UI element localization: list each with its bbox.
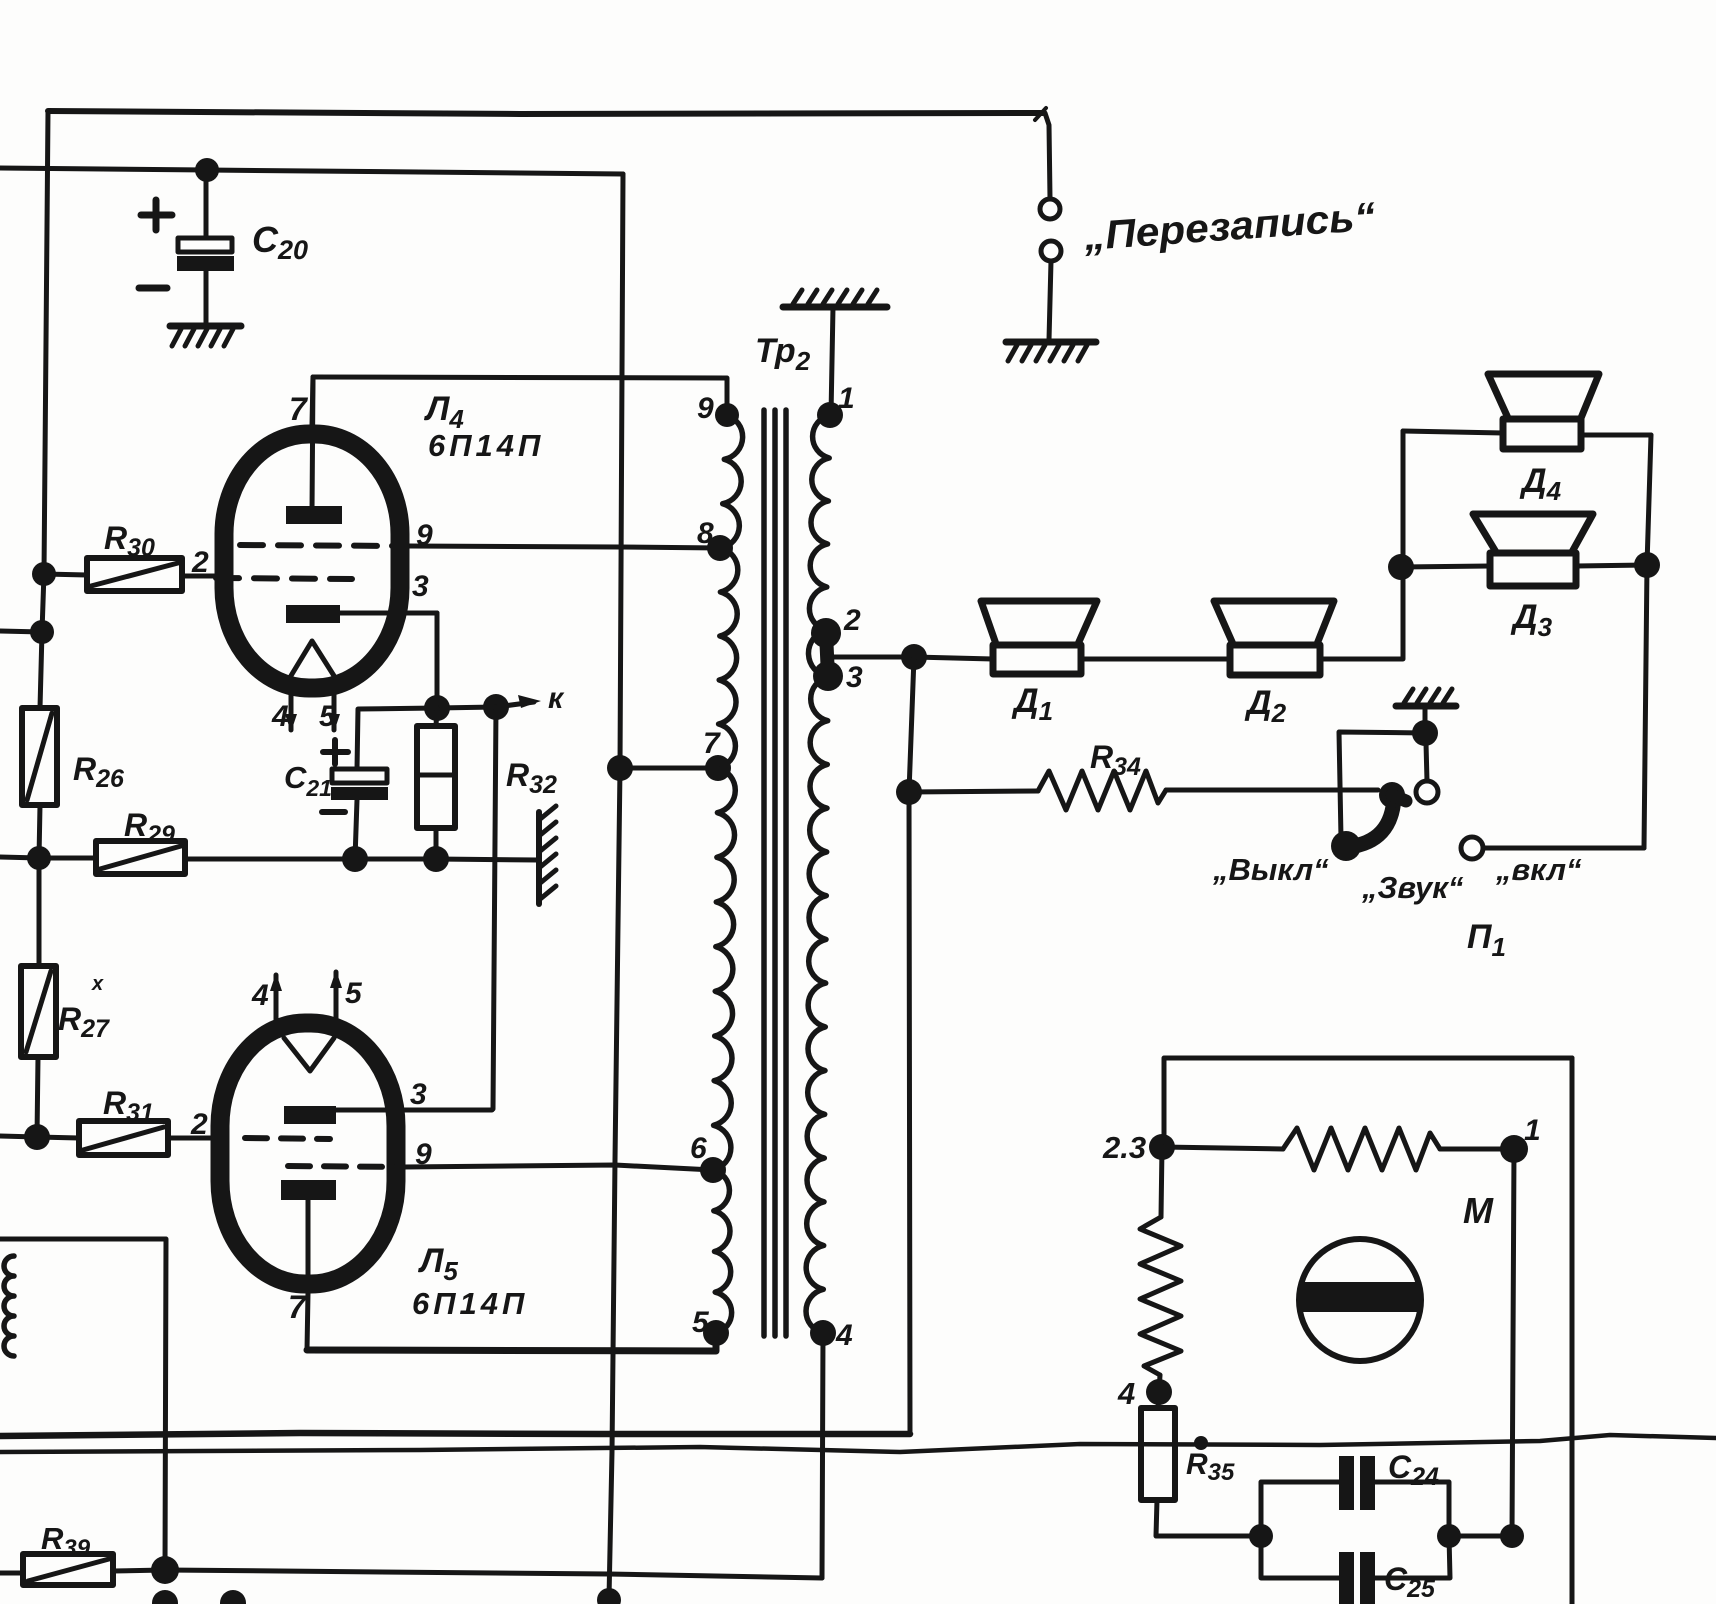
wire left edge y632 bbox=[0, 631, 42, 632]
resistor R31 bbox=[37, 1085, 212, 1155]
resistor (motor left winding) bbox=[1161, 1147, 1162, 1217]
Tr2 secondary winding bbox=[806, 415, 830, 1333]
svg-text:3: 3 bbox=[410, 1078, 427, 1111]
svg-text:4: 4 bbox=[271, 700, 289, 733]
node (37,1137) bbox=[24, 1124, 50, 1150]
node R32 bottom bbox=[423, 846, 449, 872]
wire Л5 pin9 to Tr2 pin6 bbox=[404, 1165, 713, 1170]
node C24/C25 right bbox=[1437, 1524, 1461, 1548]
svg-text:2: 2 bbox=[190, 1108, 208, 1141]
node motor pin 2.3 bbox=[1149, 1134, 1175, 1160]
svg-text:„Звук“: „Звук“ bbox=[1361, 870, 1464, 905]
node K junction bbox=[483, 694, 509, 720]
capacitor C24 bbox=[1261, 1449, 1449, 1536]
ground (above П1) bbox=[1396, 689, 1456, 706]
node Tr2 pin8 bbox=[707, 535, 733, 561]
switch П1 bbox=[1212, 709, 1644, 962]
wire Д1 to Д2 bbox=[1081, 657, 1230, 662]
svg-text:5: 5 bbox=[319, 700, 337, 733]
transformer T Тр2 bbox=[690, 332, 863, 1352]
motor M circuit bbox=[1102, 1058, 1572, 1604]
svg-text:7: 7 bbox=[288, 1289, 308, 1325]
resistor R26 bbox=[22, 708, 125, 858]
svg-text:5: 5 bbox=[692, 1306, 710, 1339]
node cathode junction bbox=[424, 695, 450, 721]
wire Д2 to Д3/Д4 riser bbox=[1320, 431, 1403, 659]
wire Л4 pin7 to Tr2 pin9 bbox=[313, 377, 727, 415]
svg-text:1: 1 bbox=[1524, 1114, 1541, 1147]
Tr2 primary winding bbox=[713, 415, 743, 1333]
speaker Д4 bbox=[1403, 374, 1651, 506]
wire Tr2 pin2/3 output bbox=[830, 655, 914, 660]
node bus-pin7 junction bbox=[607, 755, 633, 781]
wire motor box top bbox=[1164, 1058, 1572, 1147]
node Tr2 pin2 bbox=[811, 618, 841, 648]
svg-text:6: 6 bbox=[690, 1132, 707, 1165]
svg-text:4: 4 bbox=[1117, 1376, 1135, 1411]
wire Tr2 pin7 to bus bbox=[620, 766, 718, 771]
svg-text:4: 4 bbox=[835, 1319, 853, 1352]
node Tr2 pin9 bbox=[715, 403, 739, 427]
node Д3 left junction bbox=[1388, 554, 1414, 580]
wire Л5 pin7 to Tr2 pin5 bbox=[307, 1333, 716, 1351]
wire motor pin1 down bbox=[1512, 1149, 1514, 1536]
resistor R39 bbox=[0, 1521, 165, 1585]
capacitor C20 bbox=[139, 170, 308, 325]
node Tr2 pin3 bbox=[813, 661, 843, 691]
node Tr2 pin7 bbox=[705, 755, 731, 781]
ground (below Перезапись switch) bbox=[1006, 342, 1096, 361]
svg-text:2: 2 bbox=[843, 604, 861, 637]
resistor R32 bbox=[417, 708, 557, 859]
wire motor box right side bbox=[1570, 1058, 1575, 1604]
tube U Л4 6П14П bbox=[191, 377, 544, 733]
svg-text:7: 7 bbox=[289, 391, 309, 427]
speaker Д1 bbox=[914, 601, 1097, 726]
capacitor C21 bbox=[284, 708, 437, 859]
Tr2 core bbox=[764, 410, 786, 1336]
svg-text:6П14П: 6П14П bbox=[428, 428, 544, 463]
resistor R30 bbox=[32, 520, 222, 591]
coil fragment (left edge) bbox=[0, 1239, 166, 1570]
switch "Перезапись" bbox=[1035, 108, 1377, 340]
svg-text:М: М bbox=[1463, 1190, 1494, 1231]
wire C24/C25 to motor pin1 line bbox=[1449, 1534, 1512, 1539]
node bottom edge dots bbox=[152, 1590, 178, 1604]
wire Л4 pin3 down bbox=[435, 613, 440, 708]
node motor pin 1 bbox=[1500, 1135, 1528, 1163]
wire junction to K arrow bbox=[437, 702, 534, 708]
svg-text:8: 8 bbox=[697, 517, 714, 550]
node (42,632) bbox=[30, 620, 54, 644]
speaker Д2 bbox=[1214, 601, 1334, 728]
resistor R35 bbox=[1141, 1392, 1261, 1536]
svg-text:9: 9 bbox=[697, 392, 714, 425]
wire R39 line to Tr2 pin4 bbox=[165, 1570, 822, 1578]
node small (lower line) bbox=[1194, 1436, 1208, 1450]
svg-text:7: 7 bbox=[703, 727, 721, 760]
speaker Д3 bbox=[1401, 514, 1647, 642]
ground (above Tr2 pin1) bbox=[783, 290, 887, 415]
node Tr2 pin4 bbox=[810, 1320, 836, 1346]
wire long line upper bbox=[0, 1433, 910, 1436]
svg-text:2.3: 2.3 bbox=[1102, 1130, 1146, 1165]
wire long line lower bbox=[0, 1435, 1716, 1452]
node R39 junction bbox=[151, 1556, 179, 1584]
wire Л4 pin9 to Tr2 pin8 bbox=[408, 546, 721, 548]
node (39,858) bbox=[27, 846, 51, 870]
wire Л5 pin3 riser bbox=[493, 707, 496, 1109]
wire Д3/Д4 right riser to switch bbox=[1644, 435, 1651, 848]
ground (below C20) bbox=[170, 326, 241, 346]
tube U Л5 6П14П bbox=[220, 970, 528, 1350]
svg-text:4: 4 bbox=[251, 979, 269, 1012]
wire cathode line y858 bbox=[0, 857, 96, 858]
chassis hatch (cathode return) bbox=[539, 806, 556, 904]
wire long vertical bus bbox=[609, 174, 623, 1598]
resistor R34 bbox=[909, 739, 1378, 810]
node Д3 right junction bbox=[1634, 552, 1660, 578]
svg-text:„вкл“: „вкл“ bbox=[1495, 852, 1582, 887]
wire B+ feed horizontal bbox=[0, 168, 623, 174]
svg-text:3: 3 bbox=[412, 570, 429, 603]
motor symbol bbox=[1299, 1239, 1421, 1361]
svg-text:к: к bbox=[548, 682, 565, 715]
wire Tr2 pin4 down bbox=[822, 1333, 823, 1578]
resistor R29 bbox=[96, 807, 538, 874]
resistor (motor top winding) bbox=[1162, 1147, 1283, 1149]
node C20 top junction bbox=[195, 158, 219, 182]
wire top bus bbox=[48, 111, 1043, 114]
node C24/C25 left bbox=[1249, 1524, 1273, 1548]
svg-text:„Выкл“: „Выкл“ bbox=[1212, 852, 1329, 887]
svg-text:3: 3 bbox=[846, 661, 863, 694]
node motor pin 4 bbox=[1146, 1379, 1172, 1405]
node C21 bottom bbox=[342, 846, 368, 872]
node Tr2 pin1 bbox=[817, 402, 843, 428]
svg-text:x: x bbox=[91, 973, 104, 995]
node Tr2 pin6 bbox=[700, 1157, 726, 1183]
capacitor C25 bbox=[1261, 1536, 1450, 1604]
svg-text:6П14П: 6П14П bbox=[412, 1286, 528, 1321]
wire left vertical branch bbox=[40, 111, 48, 708]
node motor line bottom bbox=[1500, 1524, 1524, 1548]
node output junction B bbox=[896, 779, 922, 805]
wire output vertical bbox=[909, 657, 914, 1434]
wire left edge y1137 bbox=[0, 1136, 37, 1137]
svg-text:5: 5 bbox=[345, 977, 363, 1010]
svg-text:1: 1 bbox=[838, 382, 855, 415]
resistor R27 bbox=[21, 858, 110, 1137]
node output junction A bbox=[901, 644, 927, 670]
node Tr2 pin5 bbox=[703, 1320, 729, 1346]
